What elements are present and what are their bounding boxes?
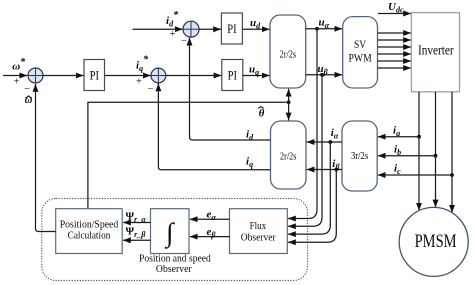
- PI controller U1 (speed): [84, 60, 105, 91]
- wire i_alpha to lower 2r/2s: [307, 141, 342, 143]
- wire ib to 3r/2s: [378, 155, 436, 157]
- wire ic to 3r/2s: [378, 174, 452, 176]
- svg-text:Observer: Observer: [241, 232, 276, 243]
- wire theta-hat down into lower 2r/2s: [288, 102, 290, 120]
- summing junction J2: [151, 68, 166, 83]
- wire id* input stub: [133, 28, 183, 30]
- svg-text:PI: PI: [90, 69, 99, 83]
- wire psi_r_alpha: [123, 222, 151, 224]
- wire J2 to PI2: [166, 75, 222, 77]
- wire theta-hat horizontal and down to observer output: [88, 102, 289, 208]
- svg-text:θ: θ: [259, 107, 265, 119]
- svg-text:3r/2s: 3r/2s: [351, 150, 368, 162]
- svg-text:−: −: [148, 84, 154, 95]
- wire J1 to PI1: [43, 75, 84, 77]
- wire PI1 to J2: [105, 75, 151, 77]
- svg-text:Calculation: Calculation: [68, 231, 111, 242]
- block 2r/2s lower (alpha-beta to dq): [271, 121, 307, 189]
- svg-text:PWM: PWM: [349, 50, 372, 64]
- svg-text:∫: ∫: [164, 218, 175, 250]
- wire u_alpha to SVPWM: [306, 28, 343, 30]
- wire psi_r_beta: [123, 239, 151, 241]
- wire phase a: [418, 92, 420, 211]
- svg-text:+: +: [14, 76, 20, 87]
- PI controller U2 (iq current): [222, 60, 243, 91]
- wire U_dc to inverter: [378, 13, 411, 15]
- wire id feedback to J3: [190, 38, 271, 140]
- svg-text:PI: PI: [228, 69, 237, 83]
- wire u_beta to SVPWM: [306, 74, 343, 76]
- wire e_alpha: [190, 218, 230, 220]
- summing junction J1: [28, 68, 43, 83]
- block Flux Observer: [230, 209, 288, 254]
- svg-text:−: −: [24, 84, 30, 95]
- node dot ic: [450, 173, 454, 177]
- wire i_beta branch to flux observer: [288, 170, 336, 243]
- block 2r/2s upper (dq to alpha-beta): [270, 15, 306, 88]
- block 3r/2s (Clarke): [342, 121, 377, 191]
- svg-text:Observer: Observer: [156, 264, 192, 275]
- block SV PWM: [343, 17, 378, 88]
- wire ia to 3r/2s: [378, 136, 419, 138]
- motor PMSM: [399, 207, 468, 276]
- dashed observer enclosure: [42, 199, 308, 281]
- wire omega-hat feedback to J1: [36, 84, 56, 232]
- node dot ib: [434, 154, 438, 158]
- svg-text:Position/Speed: Position/Speed: [60, 219, 119, 230]
- wire PI2 to dq block with label uq: [243, 75, 270, 77]
- svg-text:−: −: [181, 36, 187, 47]
- wire u_beta branch to flux observer: [288, 75, 322, 227]
- block Position/Speed Calculation: [56, 209, 123, 254]
- wire PI3 to dq block with label ud: [242, 28, 269, 30]
- wire theta-hat up into upper 2r/2s: [288, 89, 290, 103]
- svg-text:SV: SV: [354, 37, 366, 51]
- wire e_beta: [190, 236, 230, 238]
- block integrator: [151, 209, 190, 254]
- wire iq feedback to J2: [158, 84, 270, 170]
- wire omega* input: [3, 75, 27, 77]
- node dot u_beta branch: [320, 73, 324, 77]
- node dot i_beta branch: [334, 168, 338, 172]
- wire i_beta to lower 2r/2s: [307, 169, 342, 171]
- wire J3 to PI3: [199, 28, 221, 30]
- PI controller U3 (id current): [221, 13, 242, 44]
- wire i_alpha branch to flux observer: [288, 142, 330, 234]
- node dot theta-hat: [287, 100, 291, 104]
- svg-text:Inverter: Inverter: [418, 42, 454, 57]
- wire phase c: [451, 92, 453, 213]
- node dot ia: [417, 135, 421, 139]
- svg-text:PI: PI: [227, 22, 236, 36]
- wire phase b: [435, 92, 437, 208]
- gate signal arrows SVPWM to Inverter: [378, 33, 412, 68]
- svg-text:2r/2s: 2r/2s: [280, 150, 297, 162]
- summing junction J3: [183, 21, 199, 37]
- node dot i_alpha branch: [328, 140, 332, 144]
- node dot u_alpha branch: [315, 27, 319, 31]
- svg-text:Flux: Flux: [250, 221, 267, 232]
- svg-text:+: +: [136, 77, 142, 88]
- wire u_alpha branch to flux observer: [288, 29, 317, 219]
- svg-text:2r/2s: 2r/2s: [280, 49, 297, 61]
- svg-text:PMSM: PMSM: [415, 232, 457, 252]
- block Inverter: [411, 13, 459, 92]
- svg-text:ω: ω: [25, 95, 33, 106]
- svg-text:+: +: [170, 29, 176, 40]
